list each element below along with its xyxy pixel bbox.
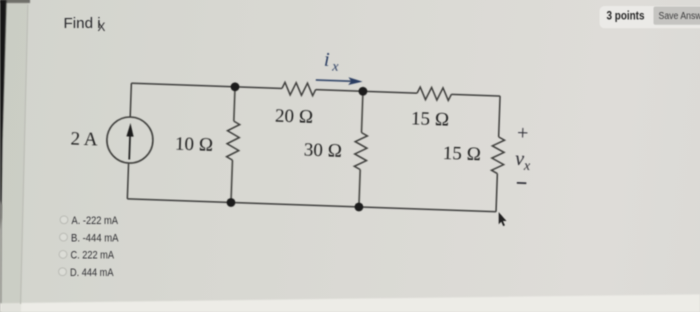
wire: top rail to top-right corner [451, 94, 500, 96]
junction node A top (dot) [230, 82, 239, 91]
svg-text:Save Answe: Save Answe [659, 11, 700, 22]
dark left bezel strip [0, 0, 7, 230]
current label ix [324, 49, 340, 75]
wire: top rail between 20 ohm and 15 ohm [316, 90, 417, 94]
polarity label minus [517, 182, 526, 184]
svg-text:x: x [523, 159, 532, 174]
points box (toolbar) [600, 6, 700, 28]
wire: left branch upper segment [130, 83, 131, 117]
faint left photo edge column [0, 200, 2, 312]
svg-text:B. -444 mA: B. -444 mA [71, 232, 119, 244]
wire: node B branch lower segment [359, 170, 360, 207]
svg-text:30 Ω: 30 Ω [303, 140, 342, 162]
answer option D radio [59, 268, 67, 276]
resistor R3 10 ohm (vertical) [226, 121, 239, 160]
resistor R1 20 ohm (horizontal) [282, 82, 316, 96]
wire: node A branch upper segment [234, 87, 235, 121]
svg-text:+: + [517, 122, 529, 144]
svg-text:D. 444 mA: D. 444 mA [70, 267, 114, 279]
left column subtle shading [1, 0, 28, 312]
svg-text:X: X [98, 20, 106, 34]
dark top-left bezel corner [0, 0, 30, 3]
Save Answer button [654, 7, 700, 25]
wire: left branch lower segment [127, 163, 128, 199]
svg-text:20 Ω: 20 Ω [275, 105, 314, 127]
svg-text:x: x [331, 60, 340, 75]
mouse cursor pointer [499, 212, 507, 226]
svg-text:3 points: 3 points [607, 8, 645, 22]
current source I1 2A (circle) [106, 116, 154, 164]
faint page margin line [21, 5, 28, 305]
wire: node A branch lower segment [231, 160, 232, 202]
svg-text:15 Ω: 15 Ω [442, 143, 481, 165]
svg-text:C. 222 mA: C. 222 mA [71, 250, 115, 262]
junction node B top (dot) [358, 87, 367, 96]
svg-text:15 Ω: 15 Ω [411, 109, 450, 131]
arrow of current source I1 [126, 123, 134, 160]
resistor R4 30 ohm (vertical) [354, 132, 367, 169]
answer option A radio [60, 216, 68, 224]
resistor R5 15 ohm (vertical right) [491, 137, 504, 174]
title "Find iX" [64, 15, 106, 34]
wire: right branch upper segment [499, 96, 500, 137]
wire: right branch lower segment [496, 174, 497, 212]
wire: node B branch upper segment [361, 91, 362, 132]
wire: bottom rail [127, 199, 496, 212]
svg-text:A. -222 mA: A. -222 mA [72, 215, 119, 227]
resistor R2 15 ohm (horizontal top) [417, 87, 452, 101]
light bottom band [0, 294, 700, 312]
svg-text:10 Ω: 10 Ω [175, 134, 214, 156]
svg-text:2 A: 2 A [70, 128, 98, 150]
answer option C radio [59, 251, 67, 259]
wire: top rail from top-left corner to 20-ohm resistor [131, 83, 282, 88]
junction node A bottom (dot) [226, 198, 235, 207]
svg-text:i: i [324, 49, 330, 71]
voltage label vx [515, 148, 532, 174]
junction node B bottom (dot) [354, 202, 363, 211]
current direction arrow ix [316, 76, 363, 85]
answer option B radio [60, 233, 68, 241]
svg-text:Find i: Find i [64, 15, 101, 32]
